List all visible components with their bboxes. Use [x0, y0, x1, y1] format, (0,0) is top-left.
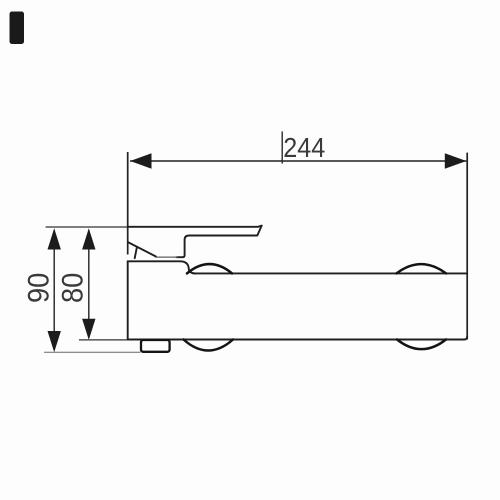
svg-text:244: 244	[283, 132, 325, 164]
svg-text:90: 90	[22, 273, 55, 303]
svg-text:80: 80	[56, 273, 89, 303]
